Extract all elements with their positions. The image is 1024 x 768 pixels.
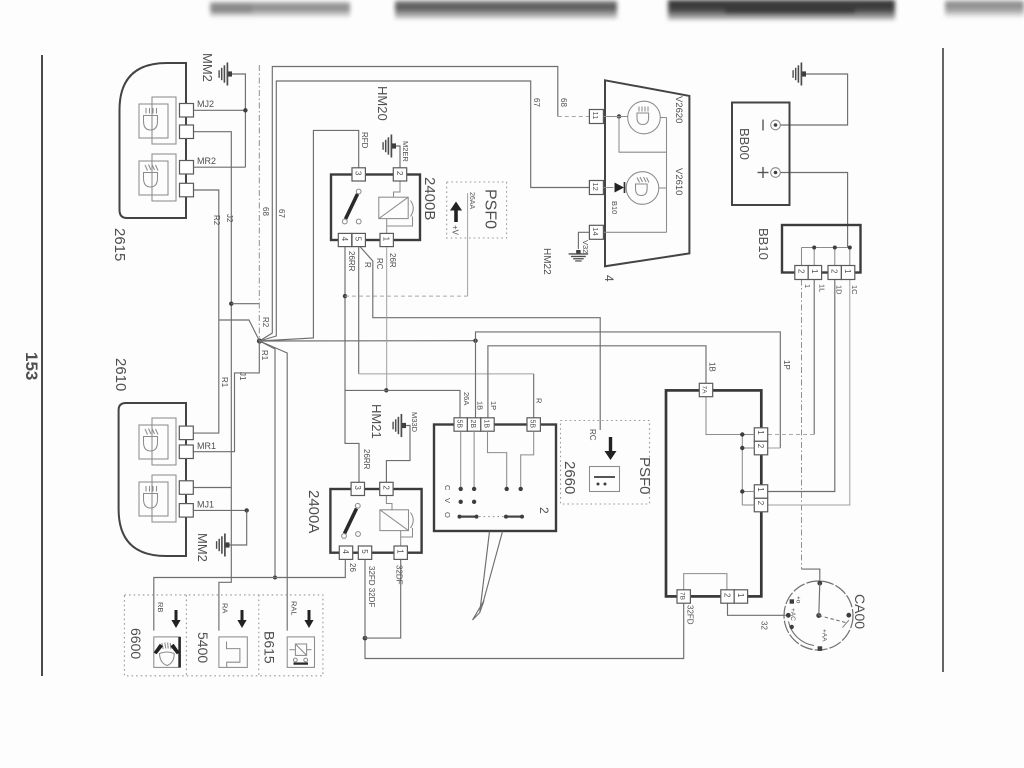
svg-text:32FD 32DF: 32FD 32DF — [367, 566, 376, 607]
svg-text:1: 1 — [810, 269, 819, 274]
svg-text:12: 12 — [591, 183, 600, 191]
svg-text:J2: J2 — [225, 214, 234, 223]
svg-text:2: 2 — [756, 501, 765, 506]
svg-text:1: 1 — [756, 430, 765, 435]
svg-text:68: 68 — [559, 98, 568, 107]
svg-text:6600: 6600 — [128, 628, 144, 659]
svg-text:11: 11 — [591, 112, 600, 120]
svg-text:4: 4 — [340, 237, 349, 242]
svg-text:R1: R1 — [220, 377, 229, 388]
svg-text:PSF0: PSF0 — [636, 457, 653, 495]
svg-text:1P: 1P — [489, 401, 498, 410]
svg-text:1: 1 — [803, 284, 812, 288]
svg-text:+AA: +AA — [821, 629, 828, 642]
svg-text:V2620: V2620 — [673, 96, 684, 123]
svg-text:RB: RB — [156, 602, 165, 612]
svg-text:R1: R1 — [260, 350, 269, 361]
svg-text:PSF0: PSF0 — [482, 189, 499, 229]
svg-text:RFD: RFD — [360, 132, 369, 149]
svg-text:R2: R2 — [261, 317, 270, 328]
svg-text:32DF: 32DF — [395, 565, 404, 585]
svg-text:2: 2 — [830, 269, 839, 274]
svg-text:C: C — [443, 485, 452, 491]
svg-text:1: 1 — [756, 487, 765, 492]
svg-text:2: 2 — [796, 269, 805, 274]
svg-text:4: 4 — [341, 549, 350, 554]
svg-text:2610: 2610 — [112, 358, 129, 391]
svg-text:J1: J1 — [238, 372, 247, 381]
svg-text:1B: 1B — [476, 401, 485, 410]
svg-text:CA00: CA00 — [852, 594, 868, 629]
svg-text:O: O — [443, 512, 452, 518]
svg-text:1: 1 — [736, 593, 745, 598]
svg-text:5400: 5400 — [195, 632, 211, 663]
svg-text:2B: 2B — [469, 420, 476, 429]
svg-text:2400A: 2400A — [305, 490, 322, 533]
svg-text:2: 2 — [756, 444, 765, 449]
svg-text:HM21: HM21 — [369, 404, 384, 439]
svg-text:26RR: 26RR — [362, 449, 371, 470]
svg-text:1B: 1B — [482, 420, 489, 429]
svg-text:B615: B615 — [262, 631, 278, 664]
svg-text:1P: 1P — [782, 360, 791, 370]
svg-text:RAL: RAL — [290, 601, 299, 616]
svg-text:2660: 2660 — [561, 461, 578, 494]
svg-text:MJ2: MJ2 — [197, 99, 214, 109]
svg-text:5: 5 — [354, 237, 363, 242]
svg-text:RC: RC — [375, 258, 384, 270]
svg-text:V2610: V2610 — [673, 168, 684, 195]
svg-text:2: 2 — [537, 507, 551, 514]
svg-text:HM22: HM22 — [541, 248, 552, 275]
svg-text:26: 26 — [348, 563, 357, 572]
svg-text:1: 1 — [396, 549, 405, 554]
svg-text:B10: B10 — [610, 201, 619, 214]
svg-text:R: R — [535, 398, 544, 404]
svg-text:2: 2 — [381, 485, 390, 490]
svg-text:26AA: 26AA — [468, 192, 475, 209]
svg-text:68: 68 — [261, 207, 270, 216]
svg-text:BB10: BB10 — [756, 228, 771, 260]
svg-text:R2: R2 — [212, 215, 221, 226]
svg-text:MM2: MM2 — [200, 53, 215, 82]
svg-text:HM20: HM20 — [375, 86, 390, 121]
svg-text:26RR: 26RR — [347, 251, 356, 272]
svg-text:1C: 1C — [850, 285, 859, 295]
svg-text:1: 1 — [843, 269, 852, 274]
svg-text:BB00: BB00 — [737, 128, 752, 160]
svg-text:V: V — [443, 498, 452, 503]
svg-text:1D: 1D — [835, 285, 844, 295]
svg-text:2400B: 2400B — [421, 177, 438, 220]
svg-text:MJ1: MJ1 — [197, 500, 214, 510]
svg-text:RC: RC — [588, 429, 597, 441]
svg-text:MM2: MM2 — [195, 533, 210, 562]
svg-text:1B: 1B — [708, 362, 717, 372]
svg-text:7B: 7B — [678, 592, 685, 600]
svg-text:2: 2 — [722, 593, 731, 598]
svg-text:3: 3 — [354, 171, 363, 176]
svg-text:MR2: MR2 — [197, 156, 216, 166]
svg-text:2: 2 — [395, 171, 404, 176]
svg-text:M2ER: M2ER — [401, 141, 410, 162]
svg-text:26R: 26R — [388, 253, 397, 268]
svg-text:+V: +V — [451, 225, 460, 236]
svg-text:3: 3 — [353, 485, 362, 490]
svg-text:RA: RA — [221, 603, 230, 613]
svg-text:M33D: M33D — [410, 412, 419, 433]
svg-text:+AC: +AC — [789, 608, 796, 621]
svg-text:1: 1 — [382, 237, 391, 242]
svg-text:1L: 1L — [818, 284, 827, 292]
svg-text:26A: 26A — [462, 392, 471, 405]
svg-text:4: 4 — [602, 275, 616, 282]
svg-text:14: 14 — [591, 227, 600, 235]
svg-text:5B: 5B — [456, 420, 463, 429]
svg-text:MR1: MR1 — [197, 441, 216, 451]
svg-text:5B: 5B — [529, 420, 536, 429]
svg-text:32: 32 — [760, 621, 769, 630]
svg-text:5: 5 — [360, 549, 369, 554]
svg-text:2615: 2615 — [111, 228, 128, 261]
svg-text:7A: 7A — [701, 386, 708, 395]
svg-text:67: 67 — [277, 209, 286, 218]
svg-text:67: 67 — [532, 98, 541, 107]
svg-text:R: R — [363, 262, 372, 268]
svg-text:32FD: 32FD — [686, 605, 695, 625]
svg-text:V32: V32 — [581, 240, 590, 253]
svg-text:153: 153 — [22, 352, 41, 380]
svg-text:+o: +o — [795, 596, 802, 604]
